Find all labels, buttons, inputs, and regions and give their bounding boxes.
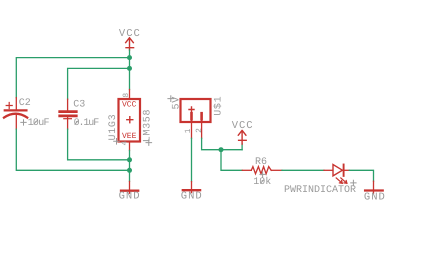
svg-text:GND: GND xyxy=(181,190,203,202)
svg-text:2: 2 xyxy=(195,128,204,133)
power symbol VCC (top, net VCC) xyxy=(119,28,141,50)
wire: C3 bottom to IC column xyxy=(68,129,130,160)
svg-text:R6: R6 xyxy=(255,157,267,168)
pin 1 xyxy=(191,119,193,138)
wire: junction down and right to R6 xyxy=(221,150,242,171)
connector U$1 (5V) xyxy=(168,96,224,139)
svg-text:GND: GND xyxy=(364,191,386,203)
wire: pin2 to VCC node xyxy=(202,138,243,149)
origin cross left xyxy=(114,139,120,145)
svg-text:10k: 10k xyxy=(253,176,271,188)
ground GND (under IC) xyxy=(119,181,141,202)
power symbol VCC (right, net VCC) xyxy=(232,120,254,144)
op-amp power gate U1G3 LM358 xyxy=(108,90,154,151)
svg-text:C2: C2 xyxy=(19,98,31,109)
svg-text:VCC: VCC xyxy=(122,101,137,110)
svg-text:VEE: VEE xyxy=(122,132,137,141)
capacitor C3 (0.1uF) xyxy=(60,99,100,129)
pin 2 xyxy=(201,119,203,138)
wire: pin1 to GND xyxy=(191,138,193,181)
svg-text:LM358: LM358 xyxy=(142,109,153,143)
emission arrows xyxy=(336,178,342,183)
node junction (VCC / C2 branch) xyxy=(127,55,132,60)
wire: VCC down to IC top pin xyxy=(129,50,131,90)
svg-text:1: 1 xyxy=(184,128,193,133)
capacitor C2 (polarized 10uF) xyxy=(4,98,50,130)
svg-text:8: 8 xyxy=(122,93,131,98)
pin 8 (VCC) xyxy=(129,90,131,99)
pin 4 (VEE) xyxy=(129,142,131,151)
svg-text:0.1uF: 0.1uF xyxy=(74,118,100,129)
node junction (IC bottom / C2) xyxy=(127,168,132,173)
node junction (VCC / R6 branch) xyxy=(219,147,224,152)
wire: top branch to C3 xyxy=(68,68,130,99)
wire: VCC riser xyxy=(241,144,243,150)
origin cross right xyxy=(146,140,152,146)
node junction (IC bottom / C3) xyxy=(127,157,132,162)
ground GND (under connector) xyxy=(181,182,203,203)
svg-text:U1G3: U1G3 xyxy=(108,114,119,141)
svg-text:GND: GND xyxy=(119,191,141,203)
pin stubs inside xyxy=(190,113,193,119)
svg-text:10uF: 10uF xyxy=(28,118,50,129)
svg-text:5V: 5V xyxy=(171,96,182,109)
wire: LED to GND xyxy=(349,170,373,181)
ground GND (right) xyxy=(364,181,386,203)
svg-text:4: 4 xyxy=(121,141,130,146)
svg-text:U$1: U$1 xyxy=(212,96,224,116)
origin cross xyxy=(168,96,174,102)
svg-text:C3: C3 xyxy=(73,99,85,110)
resistor R6 (10k) xyxy=(242,157,282,188)
wire: IC bottom pin to GND xyxy=(129,151,131,182)
svg-text:PWRINDICATOR: PWRINDICATOR xyxy=(284,185,356,196)
wire: top branch to C2 xyxy=(16,58,129,98)
node junction (VCC / C3 branch) xyxy=(127,66,132,71)
LED PWRINDICATOR xyxy=(284,165,356,197)
wire: R6 to LED xyxy=(282,169,324,171)
wire: C2 bottom to IC column xyxy=(16,129,129,170)
